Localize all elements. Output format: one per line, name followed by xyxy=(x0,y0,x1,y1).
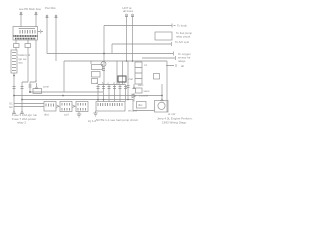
svg-text:relays: relays xyxy=(178,59,186,63)
svg-text:see PD Main fuse: see PD Main fuse xyxy=(19,7,42,11)
svg-text:relay circuit: relay circuit xyxy=(176,35,190,39)
svg-text:st mtr: st mtr xyxy=(168,112,176,116)
svg-text:dist: dist xyxy=(44,113,49,117)
svg-text:1993 Wiring Diagr.: 1993 Wiring Diagr. xyxy=(162,121,187,125)
svg-text:To A/C syst: To A/C syst xyxy=(175,40,189,44)
svg-text:NOTE 1-1 see fuel pump circui: NOTE 1-1 see fuel pump circuit xyxy=(96,118,138,122)
svg-text:coil: coil xyxy=(129,77,134,81)
svg-text:sens: sens xyxy=(144,89,151,93)
svg-text:all times: all times xyxy=(123,9,134,13)
svg-text:alt: alt xyxy=(181,64,184,68)
svg-text:Pwr Dist.: Pwr Dist. xyxy=(45,6,56,10)
svg-text:G2: G2 xyxy=(9,105,13,109)
svg-text:To body: To body xyxy=(177,24,187,28)
svg-text:ckt gnd: ckt gnd xyxy=(128,109,137,113)
svg-text:coil: coil xyxy=(64,113,69,117)
svg-text:conn: conn xyxy=(43,85,50,89)
svg-text:relay 2: relay 2 xyxy=(17,121,26,125)
svg-text:c1: c1 xyxy=(144,63,147,67)
svg-text:dist: dist xyxy=(138,103,143,107)
svg-text:cam: cam xyxy=(138,83,144,87)
svg-text:c crank: c crank xyxy=(139,94,149,98)
svg-text:acc: acc xyxy=(19,61,24,65)
